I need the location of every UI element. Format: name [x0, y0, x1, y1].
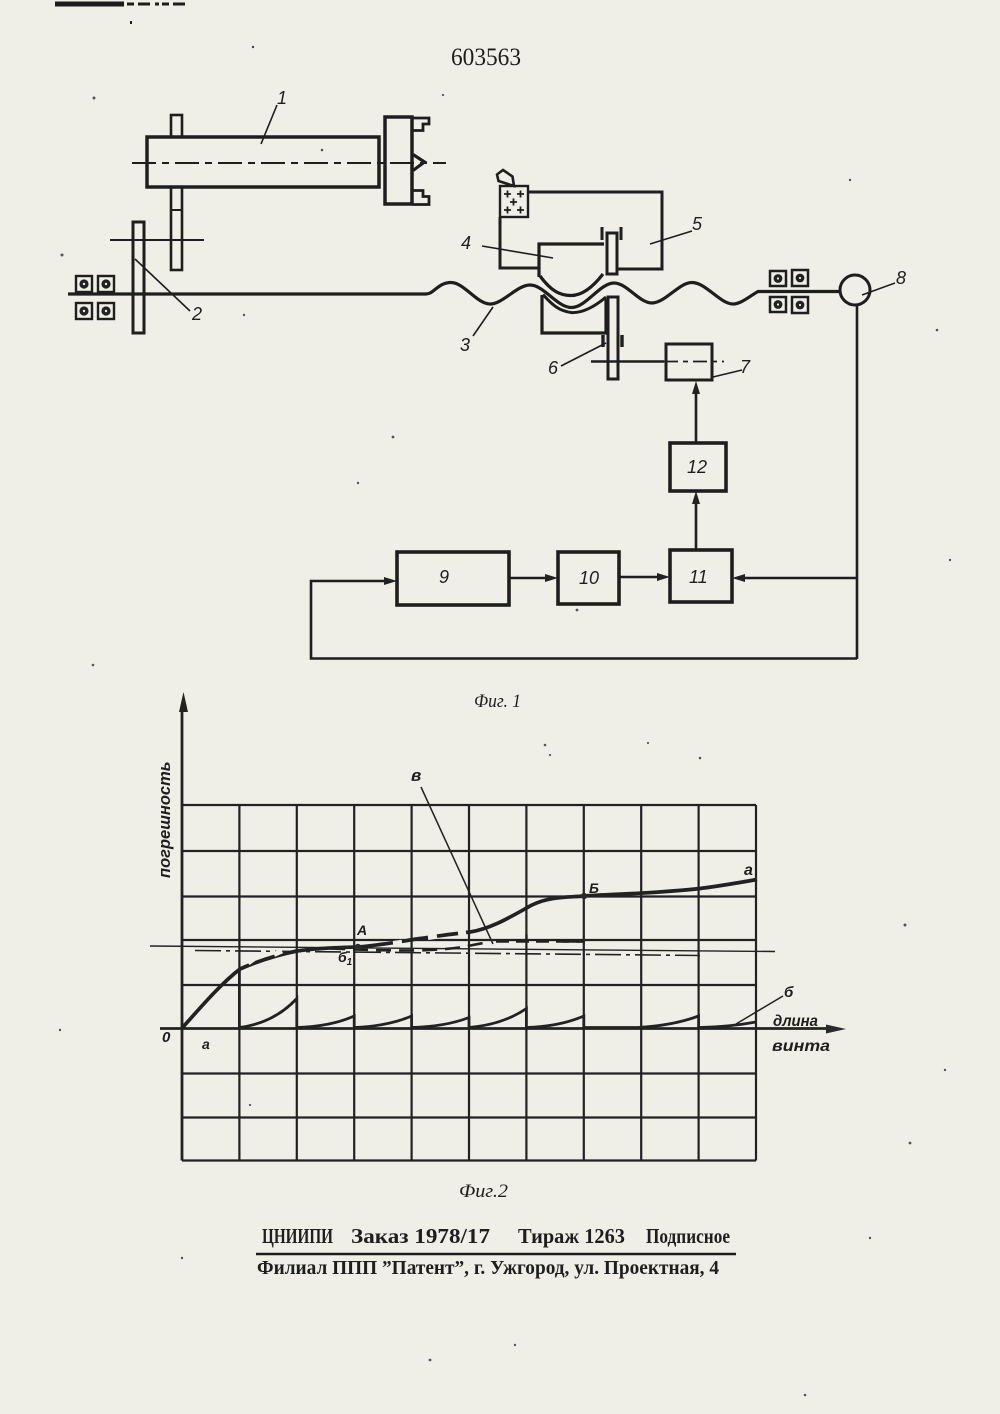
svg-text:погрешность: погрешность — [156, 761, 174, 878]
svg-text:603563: 603563 — [451, 44, 521, 71]
svg-text:б1: б1 — [338, 949, 353, 968]
svg-text:3: 3 — [460, 335, 470, 355]
svg-text:в: в — [411, 766, 421, 785]
svg-text:Фиг.2: Фиг.2 — [459, 1181, 509, 1202]
svg-text:Фиг. 1: Фиг. 1 — [474, 691, 521, 712]
svg-text:7: 7 — [740, 357, 751, 377]
svg-text:A: A — [356, 922, 367, 938]
svg-text:а: а — [202, 1036, 210, 1052]
svg-text:4: 4 — [461, 233, 471, 253]
svg-text:Б: Б — [589, 880, 599, 896]
svg-text:Тираж 1263: Тираж 1263 — [518, 1224, 625, 1248]
svg-text:10: 10 — [579, 568, 599, 588]
svg-text:5: 5 — [692, 214, 703, 234]
svg-text:0: 0 — [162, 1029, 171, 1046]
svg-text:6: 6 — [548, 358, 559, 378]
svg-text:винта: винта — [772, 1038, 830, 1055]
svg-text:12: 12 — [687, 457, 707, 477]
svg-text:1: 1 — [277, 88, 287, 108]
svg-text:9: 9 — [439, 567, 449, 587]
svg-text:11: 11 — [689, 567, 708, 587]
svg-text:Филиал ППП ”Патент”, г. Ужгоро: Филиал ППП ”Патент”, г. Ужгород, ул. Про… — [257, 1257, 719, 1279]
svg-text:2: 2 — [191, 304, 202, 324]
svg-text:Подписное: Подписное — [646, 1224, 730, 1248]
svg-text:ЦНИИПИ: ЦНИИПИ — [262, 1224, 333, 1248]
svg-text:8: 8 — [896, 268, 906, 288]
svg-text:длина: длина — [773, 1013, 818, 1030]
svg-text:б: б — [784, 984, 794, 1001]
svg-text:Заказ 1978/17: Заказ 1978/17 — [351, 1224, 490, 1248]
svg-text:а: а — [744, 862, 753, 879]
